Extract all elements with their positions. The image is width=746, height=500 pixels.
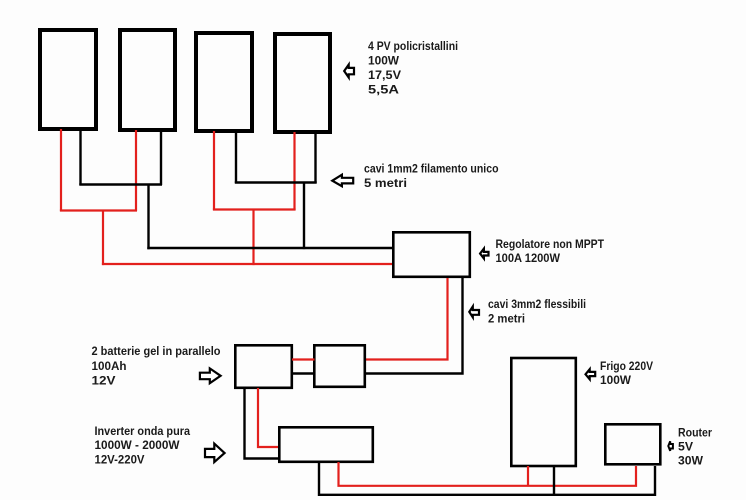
wire PV4 negative (black) [314, 132, 316, 183]
wire battery to inverter red [258, 388, 280, 447]
wire fridge red [527, 466, 529, 485]
svg-text:100W: 100W [368, 54, 400, 68]
fridge box [511, 358, 576, 466]
svg-text:cavi 3mm2 flessibili: cavi 3mm2 flessibili [488, 297, 586, 311]
svg-text:100W: 100W [600, 373, 632, 387]
battery B1 [235, 345, 291, 388]
regulator box U1 [393, 232, 470, 276]
arrow batteries label (right) [200, 368, 221, 383]
svg-text:Frigo 220V: Frigo 220V [600, 359, 653, 373]
wire inverter output red rail [339, 462, 637, 486]
wire red bus group 2 [213, 208, 296, 210]
arrow PV label [344, 65, 354, 78]
wire regulator output black [365, 278, 463, 374]
wire battery to inverter black [245, 388, 281, 459]
battery B2 [314, 345, 365, 387]
wire PV3 negative (black) [235, 131, 237, 183]
svg-text:5V: 5V [678, 440, 693, 454]
svg-text:100A 1200W: 100A 1200W [496, 251, 561, 265]
svg-text:100Ah: 100Ah [92, 359, 127, 373]
wire regulator output red [365, 278, 448, 360]
svg-text:5,5A: 5,5A [368, 83, 399, 97]
svg-text:30W: 30W [678, 454, 704, 468]
arrow fridge label [586, 369, 596, 379]
arrow router label [668, 441, 673, 451]
wire PV4 positive (red) [293, 132, 295, 210]
svg-text:Regolatore non MPPT: Regolatore non MPPT [496, 237, 605, 251]
svg-text:2 batterie gel in parallelo: 2 batterie gel in parallelo [92, 344, 221, 358]
wire black tap group 2 [303, 183, 305, 250]
arrow cable 3mm2 label [469, 307, 479, 318]
svg-text:1000W - 2000W: 1000W - 2000W [95, 438, 181, 452]
wire PV2 positive (red) [135, 130, 137, 211]
wire PV3 positive (red) [213, 131, 215, 210]
solar panel PV4 [275, 34, 330, 132]
wire inverter output black rail [319, 462, 655, 495]
wire PV1 positive (red) [60, 129, 62, 211]
wire battery link black [292, 372, 315, 374]
solar panel PV1 [40, 30, 96, 129]
router box [605, 424, 660, 464]
wire black bus group 1 [79, 183, 162, 185]
arrow cable 1mm2 label [332, 175, 353, 187]
wire red tap group 2 [252, 210, 254, 266]
svg-text:4 PV policristallini: 4 PV policristallini [368, 39, 458, 53]
svg-text:Inverter onda pura: Inverter onda pura [95, 424, 191, 438]
svg-text:2 metri: 2 metri [488, 312, 525, 326]
wire red feeder to regulator [102, 263, 393, 265]
wire PV2 negative (black) [160, 130, 162, 185]
wire fridge black [553, 466, 555, 494]
wire black tap group 1 [147, 185, 149, 250]
solar panel PV2 [120, 30, 175, 130]
svg-text:12V-220V: 12V-220V [95, 453, 145, 467]
wire red bus group 1 [60, 209, 137, 211]
wire red tap group 1 [102, 211, 104, 266]
arrow regulator label [480, 249, 488, 259]
solar panel PV3 [196, 33, 252, 131]
svg-text:5 metri: 5 metri [364, 176, 407, 190]
svg-text:cavi 1mm2 filamento unico: cavi 1mm2 filamento unico [364, 161, 499, 175]
arrow inverter label (right) [205, 444, 225, 463]
wire battery link red [292, 358, 315, 360]
svg-text:17,5V: 17,5V [368, 68, 401, 82]
svg-text:Router: Router [678, 426, 712, 440]
wire PV1 negative (black) [79, 129, 81, 185]
wire black feeder to regulator [147, 247, 393, 249]
svg-text:12V: 12V [92, 373, 116, 387]
wire black bus group 2 [235, 181, 317, 183]
inverter box [279, 427, 373, 462]
